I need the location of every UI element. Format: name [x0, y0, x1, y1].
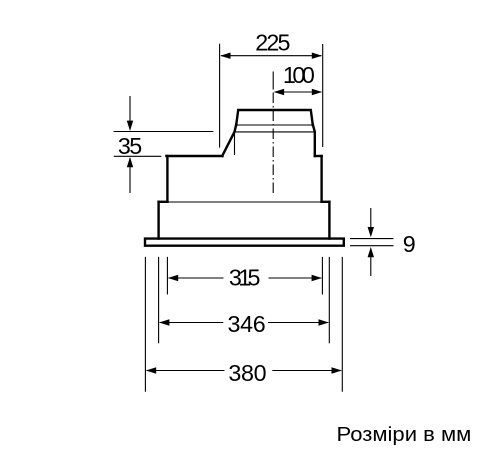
svg-text:315: 315: [229, 265, 261, 291]
svg-text:9: 9: [403, 231, 416, 257]
svg-text:346: 346: [228, 311, 266, 337]
svg-text:380: 380: [228, 360, 266, 386]
svg-text:100: 100: [283, 62, 315, 88]
svg-text:35: 35: [118, 133, 142, 159]
svg-text:Розміри в мм: Розміри в мм: [337, 423, 472, 446]
svg-text:225: 225: [255, 30, 290, 56]
